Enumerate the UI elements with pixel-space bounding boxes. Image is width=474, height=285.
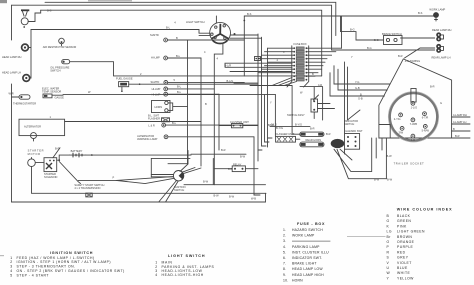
svg-text:4-R: 4-R (318, 83, 322, 87)
ignition switch U-IGN (173, 171, 185, 193)
svg-text:HAZARD SWITCH: HAZARD SWITCH (292, 228, 323, 232)
horn switch block (152, 101, 188, 113)
indicator switch body (331, 139, 345, 148)
svg-text:B-R: B-R (228, 167, 233, 171)
svg-text:B-W: B-W (214, 194, 220, 198)
svg-text:P: P (387, 245, 390, 249)
svg-text:IGNITION SWITCH: IGNITION SWITCH (50, 251, 93, 255)
svg-text:IGNITION - STEP 1 (HORN SWT /: IGNITION - STEP 1 (HORN SWT / ALT W.LAMP… (17, 260, 111, 264)
svg-text:B-W: B-W (203, 180, 209, 184)
wire top bus 3 (41, 10, 322, 76)
trailer socket enclosure (379, 59, 452, 138)
wire battery to solenoid (57, 155, 70, 160)
hazard switch (344, 119, 363, 149)
wire horn to bus (28, 10, 41, 21)
svg-text:B-Y/G: B-Y/G (276, 126, 283, 130)
svg-text:HEAD LAMP RH: HEAD LAMP RH (2, 55, 22, 59)
svg-text:THERMOSTARTER: THERMOSTARTER (13, 101, 36, 105)
svg-text:O: O (387, 240, 390, 244)
wire starter to solenoid (35, 161, 44, 163)
svg-text:RED: RED (397, 250, 406, 254)
svg-text:B-G: B-G (374, 38, 379, 42)
svg-text:1.: 1. (283, 228, 286, 232)
wire solenoid to safety switch (59, 162, 80, 184)
brake switch (374, 32, 402, 45)
wire rear lamp LH feed (332, 49, 435, 51)
svg-text:HI-LMP: HI-LMP (152, 93, 161, 97)
wire under-fuse fan (250, 78, 297, 86)
wire ignition fan up (180, 151, 201, 174)
svg-text:5-R/W: 5-R/W (422, 128, 430, 132)
wire work lamp feed (244, 15, 433, 17)
svg-text:B-G: B-G (350, 28, 355, 32)
svg-text:B-L: B-L (177, 85, 182, 89)
head lamp LH (2, 70, 30, 81)
switch row B (151, 54, 201, 60)
svg-text:4-R: 4-R (411, 138, 415, 142)
svg-text:SOLENOID: SOLENOID (44, 175, 58, 179)
svg-text:HEAD LAMP LOW: HEAD LAMP LOW (292, 267, 323, 271)
switch row 3 (152, 90, 219, 97)
svg-text:5.: 5. (283, 250, 286, 254)
wire alternator feed (65, 121, 201, 123)
svg-text:FEED (HAZ / WORK LAMP / L.SWIT: FEED (HAZ / WORK LAMP / L.SWITCH) (17, 256, 95, 260)
svg-text:3: 3 (10, 265, 12, 269)
wire vertical x=267.5 (268, 48, 273, 138)
wire ignition lower box (184, 158, 266, 184)
wire mid verticals to bottom (254, 137, 268, 195)
svg-text:WIRE COLOUR INDEX: WIRE COLOUR INDEX (397, 208, 453, 212)
svg-text:B: B (205, 102, 207, 106)
wire light switch right pins (199, 35, 262, 38)
legend fuse box (283, 222, 330, 283)
svg-text:B: B (453, 127, 455, 131)
wire ignition fan down-left (116, 178, 178, 202)
svg-text:B-R: B-R (398, 54, 403, 58)
starter solenoid (44, 146, 60, 179)
wire vertical bus x=187.5 (187, 40, 189, 164)
starter motor (28, 149, 44, 167)
svg-text:LIGHT SWITCH: LIGHT SWITCH (186, 20, 205, 24)
wire ignition feed lines (151, 158, 190, 176)
svg-text:B-R: B-R (55, 146, 60, 150)
svg-text:B-Y/G: B-Y/G (295, 123, 302, 127)
svg-text:TRAILER SOCKET: TRAILER SOCKET (394, 161, 425, 165)
legend ignition switch (10, 251, 124, 278)
trailer socket pin 3 (422, 112, 429, 120)
svg-text:B-W: B-W (387, 154, 393, 158)
svg-text:B-L: B-L (166, 26, 171, 30)
work lamp (418, 8, 446, 21)
elec water temp sensor gauge (42, 87, 64, 100)
wire water temp (52, 94, 275, 97)
cluster unit (230, 120, 249, 128)
wire mid horizontals (225, 63, 292, 83)
svg-text:B-W: B-W (374, 178, 380, 182)
svg-text:WHITE: WHITE (397, 271, 410, 275)
trailer socket pin 6 (422, 125, 430, 133)
trailer socket pin 4 (410, 118, 417, 126)
misc wire labels (205, 12, 403, 159)
svg-text:G: G (387, 219, 390, 223)
wire vertical x=261.5 (262, 37, 267, 146)
svg-text:BRAKE LIGHT: BRAKE LIGHT (292, 262, 317, 266)
svg-text:B-L/G: B-L/G (227, 79, 234, 83)
svg-text:LG: LG (387, 230, 392, 234)
svg-text:TEMP. SENSOR: TEMP. SENSOR (42, 89, 61, 93)
rear lamp LH (432, 44, 451, 59)
rear horn upper (300, 132, 331, 136)
svg-text:M O T O R: M O T O R (28, 152, 41, 156)
wire junction vertical x=340.5 (341, 16, 384, 40)
switch assy (287, 95, 319, 117)
wire work lamp fuse drop (341, 16, 343, 48)
wire light switch bottom (214, 43, 223, 185)
svg-text:W-R: W-R (9, 92, 14, 96)
svg-text:BLUE: BLUE (397, 266, 408, 270)
svg-text:8.: 8. (283, 267, 286, 271)
svg-text:FUSE BOX: FUSE BOX (294, 42, 307, 46)
svg-text:2.: 2. (283, 234, 286, 238)
svg-text:SLMTD: SLMTD (150, 33, 159, 37)
switch row L&R (148, 121, 258, 128)
svg-text:BROWN: BROWN (397, 235, 412, 239)
wire vertical x=258 (258, 34, 262, 150)
wire top bus 1 (45, 2, 336, 35)
svg-text:HI-LMP: HI-LMP (151, 56, 160, 60)
switch row A (horn swt) (150, 33, 244, 42)
trailer socket ring (390, 93, 438, 141)
svg-text:REAR HORN: REAR HORN (306, 138, 322, 142)
svg-text:B-S: B-S (47, 9, 52, 13)
svg-text:B-S: B-S (247, 12, 252, 16)
wire flasher feed line (270, 127, 310, 140)
trailer socket stem (411, 89, 416, 103)
svg-text:L & R: L & R (148, 124, 155, 128)
wire fuse stubs left (258, 48, 293, 72)
svg-text:B-L: B-L (172, 121, 177, 125)
svg-text:Y: Y (260, 56, 262, 60)
svg-text:LIGHT GREEN: LIGHT GREEN (397, 230, 425, 234)
svg-text:FUEL GAUGE: FUEL GAUGE (116, 77, 133, 81)
svg-text:4 x 2 TRANSMISSION: 4 x 2 TRANSMISSION (74, 186, 100, 190)
wire fuel gauge (129, 83, 258, 85)
svg-text:SWITCH ASSY: SWITCH ASSY (287, 113, 305, 117)
svg-text:10.: 10. (283, 278, 288, 282)
svg-text:B: B (312, 72, 314, 76)
svg-text:HI-LMP: HI-LMP (152, 87, 161, 91)
svg-text:6-T/R: 6-T/R (422, 116, 429, 120)
svg-text:B-R: B-R (221, 148, 226, 152)
trailer socket pin 1 (411, 101, 418, 109)
svg-text:SWITCH: SWITCH (174, 188, 184, 192)
svg-text:G-B: G-B (355, 86, 360, 90)
wire brake to rear lamps (401, 38, 435, 58)
wire cluster unit (219, 125, 258, 127)
svg-text:WORK LAMP: WORK LAMP (292, 234, 315, 238)
svg-text:S: S (387, 256, 390, 260)
wire relay stubs (214, 168, 258, 170)
svg-text:LIGHT SWITCH: LIGHT SWITCH (168, 254, 205, 258)
svg-text:B-R: B-R (310, 127, 315, 131)
flasher relay small (148, 114, 170, 122)
svg-text:PARKING LAMP: PARKING LAMP (292, 245, 320, 249)
svg-text:4: 4 (155, 273, 158, 277)
wire fuse stubs right (308, 48, 342, 76)
head lamp RH (2, 44, 28, 59)
svg-text:B-L/R: B-L/R (225, 63, 232, 67)
svg-text:WARNING LAMP: WARNING LAMP (137, 137, 157, 141)
wire head lamps riser (29, 30, 31, 79)
light switch connector U-LS (174, 20, 230, 44)
wire vertical bus x=201 (200, 58, 202, 166)
wire thermostarter (12, 96, 20, 98)
svg-text:Y: Y (351, 55, 353, 59)
svg-text:B-W: B-W (240, 155, 246, 159)
wire vertical x=264.5 (265, 95, 270, 142)
svg-text:VIOLET: VIOLET (397, 261, 412, 265)
svg-text:B/LG: B/LG (268, 123, 274, 127)
svg-text:FLASHER UNIT: FLASHER UNIT (276, 132, 295, 136)
svg-text:HEAD LAMP HIGH: HEAD LAMP HIGH (292, 273, 324, 277)
svg-text:1: 1 (10, 256, 12, 260)
wire bottom border (12, 193, 266, 202)
svg-text:W-B: W-B (251, 197, 256, 201)
wire head lamp bus to light switch (31, 30, 210, 34)
svg-text:6.: 6. (283, 256, 286, 260)
svg-text:4.: 4. (283, 245, 286, 249)
svg-text:2-Y/G: 2-Y/G (394, 117, 401, 121)
svg-text:B: B (360, 92, 362, 96)
svg-text:PINK: PINK (397, 224, 407, 228)
svg-text:HEAD LAMP LH: HEAD LAMP LH (2, 70, 21, 74)
svg-text:PURPLE: PURPLE (397, 245, 414, 249)
air restrictor sensor (43, 38, 77, 49)
wire oil switch (70, 62, 322, 76)
svg-text:HORN: HORN (292, 278, 303, 282)
svg-text:3/W: 3/W (399, 130, 404, 134)
svg-text:SLMTD: SLMTD (151, 80, 160, 84)
svg-text:5: 5 (10, 273, 12, 277)
svg-text:YELLOW: YELLOW (397, 276, 414, 280)
legend light switch (155, 254, 214, 277)
svg-text:SWITCH: SWITCH (344, 122, 354, 126)
svg-text:ORANGE: ORANGE (397, 240, 415, 244)
svg-text:B: B (387, 214, 390, 218)
svg-text:BLACK: BLACK (397, 214, 411, 218)
wire hazard drop diagonals (334, 149, 386, 179)
relay (232, 162, 245, 171)
svg-text:ON - STEP 2 (BRK SWT / GAUGES: ON - STEP 2 (BRK SWT / GAUGES / INDICATO… (17, 269, 125, 273)
svg-text:P: P (113, 176, 115, 180)
svg-text:Y-G: Y-G (355, 80, 359, 84)
svg-text:STEP - 4 START: STEP - 4 START (17, 273, 49, 277)
svg-text:REAR LAMP LH: REAR LAMP LH (432, 55, 451, 59)
svg-text:HORN: HORN (155, 105, 163, 109)
battery (69, 149, 93, 158)
svg-text:GREY: GREY (397, 256, 409, 260)
svg-text:4-LAMP LH: 4-LAMP LH (453, 120, 466, 124)
svg-text:INST. CLUSTER ILLU: INST. CLUSTER ILLU (292, 250, 329, 254)
svg-text:SWITCH: SWITCH (50, 68, 60, 72)
fuse box F1-F10 (287, 42, 309, 87)
svg-text:BATTERY: BATTERY (71, 149, 83, 153)
svg-text:7.: 7. (283, 262, 286, 266)
svg-text:Br: Br (387, 235, 392, 239)
svg-text:B-R: B-R (455, 134, 460, 138)
svg-text:B-R: B-R (326, 132, 331, 136)
wire trailer bottom drops (372, 138, 387, 179)
svg-text:Y: Y (270, 101, 272, 105)
svg-text:G-B: G-B (358, 96, 363, 100)
wire outer border left (11, 5, 13, 202)
svg-text:ALTERNATOR: ALTERNATOR (24, 124, 41, 128)
svg-text:B-S: B-S (418, 11, 423, 15)
alternator U-ALT (19, 115, 65, 141)
svg-text:G: G (440, 101, 442, 105)
svg-text:GREEN: GREEN (397, 219, 411, 223)
wire top bus 2 (12, 5, 332, 50)
wire vertical x=347.5 (348, 67, 361, 120)
wire vertical x=344.5 (344, 62, 346, 133)
rear horn lower (300, 138, 324, 147)
svg-text:HAZARD SWT: HAZARD SWT (345, 129, 363, 133)
svg-text:1-L/G: 1-L/G (411, 105, 418, 109)
wire vertical x=292.1 (291, 86, 293, 127)
trailer socket pin 7 (411, 134, 415, 142)
oil pressure switch (50, 60, 69, 73)
stray leader line near Br (347, 235, 386, 237)
trailer socket pin 2 (394, 113, 403, 121)
svg-text:Y: Y (387, 276, 390, 280)
svg-text:GAUGE: GAUGE (55, 96, 65, 100)
svg-text:7-W/B: 7-W/B (410, 122, 417, 126)
fuel gauge (116, 77, 133, 92)
svg-text:B-W: B-W (229, 194, 235, 198)
svg-text:B-W: B-W (387, 178, 393, 182)
alternator warning lamp (137, 134, 254, 141)
svg-text:4-LAMP RH: 4-LAMP RH (453, 113, 467, 117)
wire trailer right outputs (452, 117, 470, 138)
svg-text:R: R (387, 250, 390, 254)
svg-text:INDICATOR SWT.: INDICATOR SWT. (292, 256, 322, 260)
svg-text:B: B (176, 36, 178, 40)
legend wire colour index (387, 208, 453, 281)
svg-text:FLASHER: FLASHER (148, 117, 160, 121)
thermostarter (9, 92, 37, 106)
svg-text:B-L: B-L (177, 90, 182, 94)
rear lamp RH (432, 28, 452, 42)
flasher unit (268, 123, 296, 142)
svg-text:2: 2 (10, 260, 12, 264)
svg-text:K: K (387, 224, 390, 228)
connector block (255, 57, 261, 61)
svg-text:4: 4 (10, 269, 12, 273)
svg-text:B-R: B-R (430, 84, 435, 88)
safety start switch (74, 183, 104, 197)
wire vertical bus x=219 (218, 94, 220, 150)
wire trailer left feeds (330, 66, 390, 96)
wire starter ground run (32, 167, 267, 194)
svg-text:HEAD-LIGHTS-HIGH: HEAD-LIGHTS-HIGH (162, 273, 204, 277)
svg-text:B-L: B-L (176, 54, 181, 58)
svg-text:U: U (387, 266, 390, 270)
svg-text:WORK LAMP: WORK LAMP (429, 8, 445, 12)
wire light switch top loop (216, 16, 244, 76)
svg-text:B-G: B-G (367, 46, 372, 50)
scan smudge top-left corner (0, 0, 7, 3)
switch row 2 (152, 85, 215, 91)
wire battery feed right (86, 153, 246, 156)
svg-text:REAR LAMP RH: REAR LAMP RH (432, 28, 452, 32)
trailer socket pin 5 (399, 126, 405, 134)
trailer socket inner corner box (379, 125, 390, 139)
svg-text:9.: 9. (283, 273, 286, 277)
svg-text:AIR RESTRICTOR SENSOR: AIR RESTRICTOR SENSOR (43, 45, 77, 49)
wire switch assy stubs (300, 87, 335, 120)
wire vertical x=275.4 (274, 95, 276, 137)
wire safety switch feed (78, 177, 173, 181)
svg-text:W: W (387, 271, 391, 275)
horn (21, 10, 29, 28)
switch row 1 (151, 78, 245, 84)
svg-text:V: V (387, 261, 390, 265)
svg-text:STEP - 3 THERMOSTART ON.: STEP - 3 THERMOSTART ON. (17, 265, 76, 269)
svg-text:3.: 3. (283, 239, 286, 243)
svg-text:FUSE - BOX: FUSE - BOX (297, 222, 325, 226)
